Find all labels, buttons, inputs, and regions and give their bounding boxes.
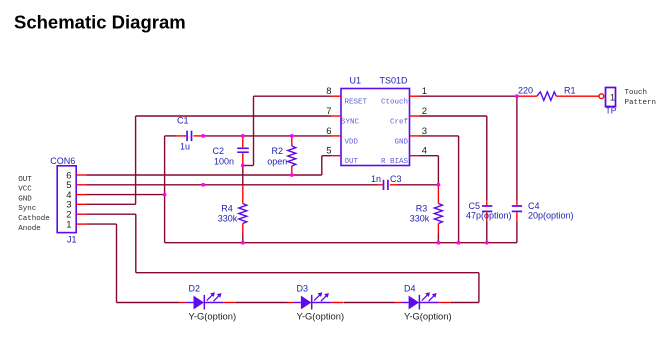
wire R4 top from C2: [242, 166, 244, 186]
svg-text:1: 1: [610, 93, 615, 103]
J1 pin stub 1: [76, 223, 86, 225]
junction R3 bottom bus: [437, 241, 441, 245]
svg-text:Anode: Anode: [18, 225, 41, 233]
wire SYNC net vertical x135: [135, 116, 137, 204]
svg-text:C3: C3: [390, 174, 402, 184]
J1 pin stub 5: [76, 184, 86, 186]
IC U1 TS01D body: [341, 89, 410, 166]
junction C2 top VDD: [241, 134, 245, 138]
LED D4: [395, 292, 451, 309]
U1 pin stub 8: [331, 95, 341, 97]
svg-text:100n: 100n: [214, 157, 234, 167]
wire R3 bottom to bus: [437, 234, 439, 243]
svg-text:CON6: CON6: [50, 156, 75, 166]
svg-text:D4: D4: [404, 284, 416, 294]
wire OUT net vertical x322: [321, 156, 323, 175]
svg-text:R BIAS: R BIAS: [381, 158, 409, 166]
wire RESET net link to C2 bottom: [243, 165, 254, 167]
J1 pin stub 2: [76, 213, 86, 215]
svg-text:Touch: Touch: [625, 89, 648, 97]
svg-text:Cref: Cref: [390, 119, 409, 127]
U1 pin stub 4: [410, 155, 420, 157]
wire GND net left vertical x164: [164, 136, 166, 243]
wire C1 left lead horizontal: [165, 135, 177, 137]
svg-text:330k: 330k: [218, 214, 238, 224]
wire OUT net link to pin5: [322, 155, 331, 157]
wire RBIAS net horizontal pin4: [420, 155, 439, 157]
wire C5 bottom to bus: [486, 222, 488, 243]
J1 pin stub 4: [76, 194, 86, 196]
junction R2 bottom OUT row: [290, 173, 294, 177]
svg-text:R2: R2: [272, 146, 284, 156]
svg-text:Sync: Sync: [18, 205, 36, 213]
svg-text:R1: R1: [564, 86, 576, 96]
junction C1 right VDD: [201, 134, 205, 138]
wire C4 bottom to bus: [516, 222, 518, 243]
wire GND net horizontal row: [87, 194, 165, 196]
junction GND row left vertical: [163, 193, 167, 197]
wire Ctouch net horizontal pin1 to R1: [420, 95, 518, 97]
svg-text:VDD: VDD: [345, 139, 359, 147]
wire Anode net vertical x116: [116, 224, 118, 302]
junction C2 bottom RESET: [241, 164, 245, 168]
svg-text:1u: 1u: [180, 142, 190, 152]
svg-text:OUT: OUT: [345, 158, 359, 166]
junction C1 bottom VCC row: [201, 183, 205, 187]
junction C3 RBIAS vertical: [437, 183, 441, 187]
svg-text:C4: C4: [528, 201, 540, 211]
junction GND vertical bus: [457, 241, 461, 245]
test point TP body: [606, 88, 616, 107]
svg-text:VCC: VCC: [18, 186, 32, 194]
svg-text:OUT: OUT: [18, 176, 32, 184]
junction C5 bus: [485, 241, 489, 245]
svg-text:R4: R4: [221, 204, 233, 214]
capacitor C5: [482, 200, 492, 223]
wire D2 to D3 link: [236, 302, 288, 304]
wire Cref net horizontal pin2: [420, 115, 487, 117]
LED D2: [180, 292, 236, 309]
wire SYNC net horizontal to pin7: [136, 115, 331, 117]
svg-text:Pattern: Pattern: [625, 99, 657, 107]
junction R4 bottom bus: [241, 241, 245, 245]
wire Cathode net vertical x136: [135, 214, 137, 273]
U1 pin stub 6: [331, 135, 341, 137]
wire OUT net horizontal row: [87, 174, 322, 176]
wire Anode net horizontal to D2: [117, 302, 180, 304]
LED D3: [287, 292, 343, 309]
svg-text:D2: D2: [189, 284, 201, 294]
wire Cref net vertical to C5: [486, 116, 488, 200]
wire VCC net horizontal row: [87, 184, 378, 186]
wire Cathode net long horizontal y272: [136, 272, 479, 274]
resistor R4: [239, 185, 247, 234]
U1 pin stub 1: [410, 95, 420, 97]
svg-text:Y-G(option): Y-G(option): [297, 311, 345, 322]
svg-text:220: 220: [518, 86, 533, 96]
svg-text:SYNC: SYNC: [341, 119, 360, 127]
svg-text:47p(option): 47p(option): [466, 211, 512, 221]
svg-text:U1: U1: [350, 76, 362, 86]
U1 pin stub 5: [331, 155, 341, 157]
svg-text:330k: 330k: [410, 214, 430, 224]
wire SYNC net horizontal to J1 pin3: [87, 203, 136, 205]
svg-text:RESET: RESET: [345, 99, 368, 107]
capacitor C3: [378, 180, 398, 190]
wire GND bottom bus: [165, 242, 517, 244]
wire R4 bottom to bus: [242, 234, 244, 243]
svg-text:1n: 1n: [371, 174, 381, 184]
svg-text:GND: GND: [394, 139, 408, 147]
svg-text:GND: GND: [18, 195, 32, 203]
U1 pin stub 7: [331, 115, 341, 117]
J1 pin stub 6: [76, 174, 86, 176]
connector J1 CON6 body: [57, 166, 76, 233]
wire RBIAS net vertical x438: [437, 156, 439, 185]
svg-text:Y-G(option): Y-G(option): [189, 311, 237, 322]
svg-text:C2: C2: [213, 146, 225, 156]
capacitor C1: [177, 131, 204, 141]
wire GND net horizontal pin3: [420, 135, 459, 137]
svg-text:C5: C5: [469, 201, 481, 211]
wire RESET net vertical x254: [253, 96, 255, 165]
capacitor C2: [237, 136, 249, 166]
wire GND net vertical x458: [458, 136, 460, 243]
wire D3 to D4 link: [344, 302, 395, 304]
svg-text:TS01D: TS01D: [380, 76, 409, 86]
wire Cathode net horizontal from J1 pin2: [87, 213, 136, 215]
U1 pin stub 2: [410, 115, 420, 117]
svg-text:Cathode: Cathode: [18, 215, 50, 223]
wire D4 cathode link: [451, 302, 479, 304]
svg-text:R3: R3: [416, 204, 428, 214]
junction Ctouch R1 C4: [515, 94, 519, 98]
svg-text:D3: D3: [297, 284, 309, 294]
wire Anode net horizontal from J1 pin1: [87, 223, 117, 225]
svg-text:1: 1: [66, 219, 71, 230]
wire VDD net horizontal to pin6: [203, 135, 331, 137]
svg-text:TP: TP: [606, 106, 617, 116]
resistor R2: [288, 136, 296, 175]
J1 pin stub 3: [76, 203, 86, 205]
svg-text:20p(option): 20p(option): [528, 211, 574, 221]
svg-text:open: open: [267, 157, 287, 167]
svg-text:Ctouch: Ctouch: [381, 99, 408, 107]
resistor R3: [434, 185, 442, 234]
test point TP open pin circle: [599, 94, 604, 99]
wire Ctouch net C4 vertical upper: [516, 96, 518, 199]
wire Cathode net vertical x479: [478, 273, 480, 303]
capacitor C4: [512, 200, 522, 223]
svg-text:C1: C1: [177, 116, 189, 126]
svg-text:Y-G(option): Y-G(option): [404, 311, 452, 322]
junction R2 top VDD: [290, 134, 294, 138]
U1 pin stub 3: [410, 135, 420, 137]
wire C3 right link: [397, 184, 438, 186]
resistor R1: [517, 92, 599, 101]
svg-text:J1: J1: [67, 235, 77, 245]
svg-text:Schematic Diagram: Schematic Diagram: [14, 12, 186, 33]
wire RESET net horizontal pin8: [254, 95, 332, 97]
